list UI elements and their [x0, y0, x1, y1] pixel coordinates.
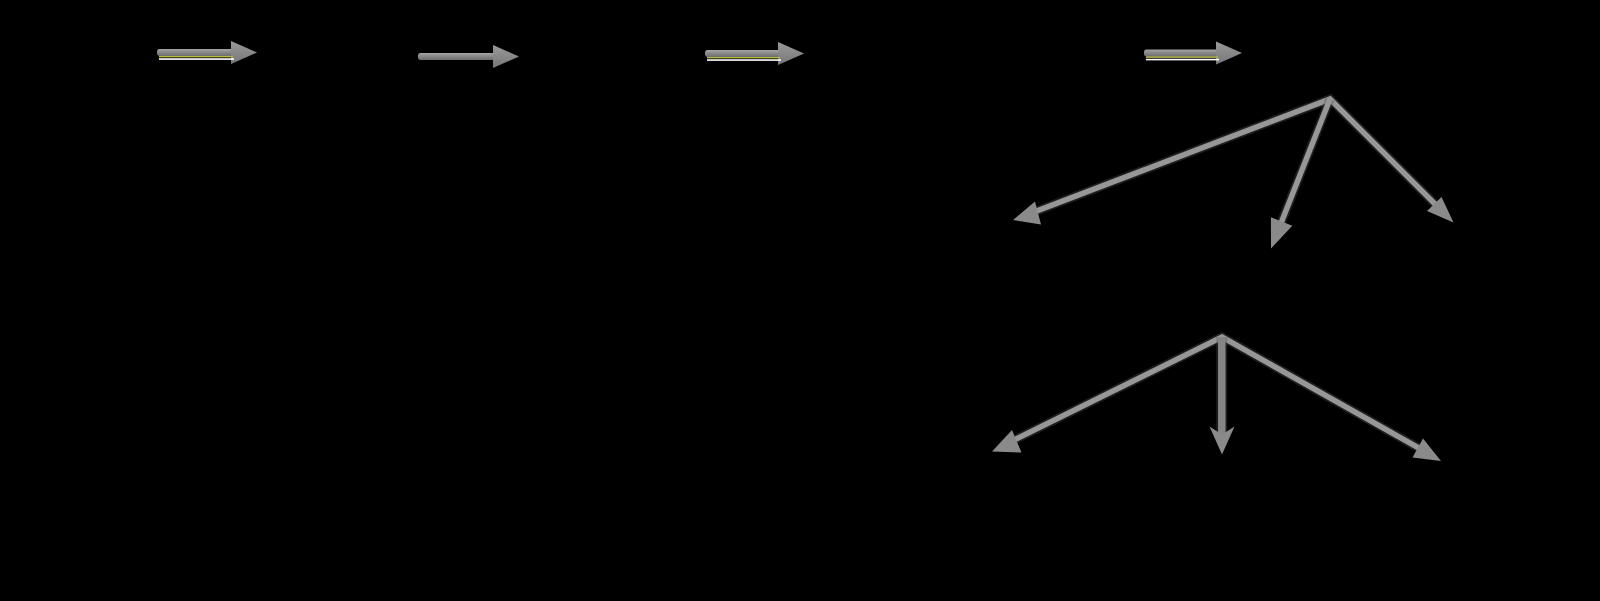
tree2 left arrowhead: [992, 430, 1022, 453]
tree1 left arrowhead: [1013, 202, 1041, 225]
tree1 middle branch line: [1280, 99, 1330, 225]
tree2 middle branch line (vertical): [1216, 337, 1227, 437]
tree1 right arrowhead: [1427, 197, 1454, 223]
horizontal arrow A3: [705, 42, 804, 65]
tree1 middle arrowhead: [1271, 217, 1292, 248]
horizontal arrow A2: [418, 45, 519, 68]
tree2 right arrowhead: [1413, 439, 1442, 462]
tree1 outer branch lines: [1035, 99, 1437, 212]
horizontal arrow A4: [1144, 42, 1242, 65]
horizontal arrow A1: [157, 41, 257, 64]
tree2 middle stealth arrowhead: [1210, 427, 1235, 455]
tree2 outer branch lines: [1013, 337, 1420, 449]
